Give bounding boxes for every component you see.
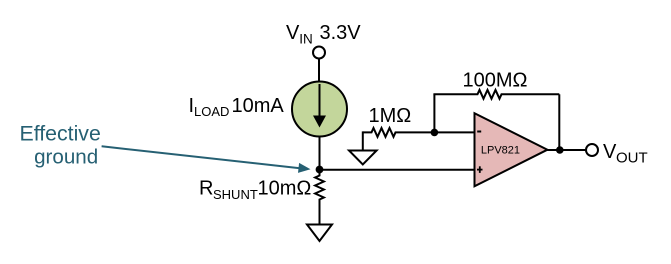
wire op-amp output (547, 149, 586, 151)
svg-text:Effective: Effective (20, 121, 101, 145)
ground for RSHUNT (307, 225, 332, 242)
terminal VOUT (586, 144, 598, 156)
svg-text:ground: ground (34, 146, 98, 169)
label ILOAD 10mA (189, 95, 285, 119)
current source I1 (292, 82, 347, 137)
svg-text:10mA: 10mA (232, 95, 285, 117)
wire feedback right vertical (558, 94, 560, 150)
resistor R2 100M with feedback wire (433, 90, 559, 99)
svg-text:V: V (286, 22, 300, 44)
label RSHUNT 10mOhm (199, 178, 311, 203)
svg-text:V: V (603, 141, 617, 163)
label VOUT (603, 141, 648, 167)
svg-text:LPV821: LPV821 (481, 145, 520, 157)
label VIN 3.3V (286, 22, 361, 47)
svg-text:OUT: OUT (616, 150, 648, 167)
svg-text:R: R (199, 178, 213, 200)
wire node to op-amp plus input (320, 169, 475, 171)
wire current source to node (319, 136, 321, 170)
svg-text:LOAD: LOAD (194, 104, 229, 119)
wire feedback left vertical (433, 94, 435, 132)
node effective ground (316, 166, 324, 174)
wire VIN to current source (318, 59, 320, 83)
ground for R1 (349, 151, 377, 165)
svg-text:IN: IN (299, 32, 313, 47)
svg-text:SHUNT: SHUNT (213, 187, 258, 202)
svg-text:1MΩ: 1MΩ (369, 105, 412, 127)
node feedback tap (431, 129, 439, 137)
svg-text:10mΩ: 10mΩ (258, 178, 312, 200)
node output (556, 146, 564, 154)
svg-text:100MΩ: 100MΩ (463, 70, 528, 92)
resistor R1 1M (363, 128, 475, 137)
op-amp U1 LPV821 (475, 113, 548, 186)
annotation arrow (102, 146, 311, 173)
wire R1 to ground (362, 131, 364, 150)
svg-text:3.3V: 3.3V (320, 22, 362, 44)
resistor RSHUNT (315, 170, 324, 225)
terminal VIN (313, 47, 325, 59)
annotation Effective ground (20, 121, 101, 168)
